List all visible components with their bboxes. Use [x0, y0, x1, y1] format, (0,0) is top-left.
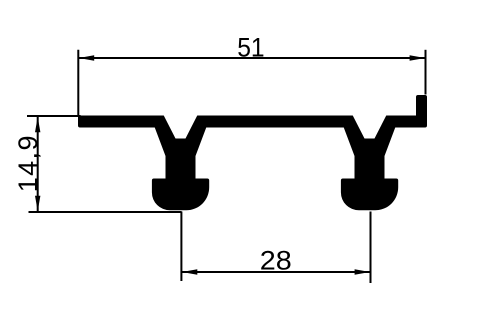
dim 28: left extension line: [180, 212, 182, 282]
dim 28: dimension line: [181, 271, 370, 273]
dim 14,9: top arrow: [35, 117, 40, 132]
dim 51: right arrow: [410, 55, 425, 60]
dim 14,9: top extension line: [27, 115, 81, 117]
svg-text:28: 28: [260, 245, 292, 275]
dim 14,9: bottom extension line: [29, 211, 182, 213]
dim 28: right extension line: [370, 212, 372, 284]
dim 14,9: dimension line: [37, 117, 39, 213]
dim 51: dimension line: [78, 57, 425, 59]
dim 51: left extension line: [77, 50, 79, 116]
svg-text:51: 51: [237, 32, 264, 62]
svg-text:14,9: 14,9: [13, 134, 43, 192]
dim 28: left arrow: [182, 269, 197, 274]
dim 14,9: bottom arrow: [35, 196, 40, 211]
profile silhouette: [78, 95, 427, 210]
dim 51: left arrow: [79, 55, 94, 60]
dim 51: right extension line: [425, 50, 427, 95]
dim 28: right arrow: [355, 269, 370, 274]
